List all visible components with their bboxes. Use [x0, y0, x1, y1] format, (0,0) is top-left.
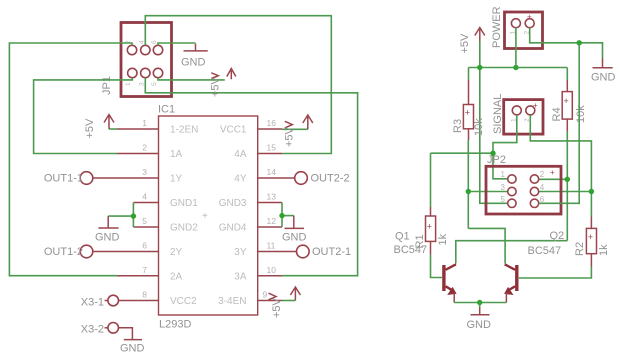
- svg-text:+: +: [465, 108, 470, 118]
- transistor Q2: [505, 264, 519, 302]
- wire JP2 pin6 to POWER GND net: [539, 43, 580, 204]
- svg-text:12: 12: [267, 216, 277, 226]
- resistor R3: [452, 68, 485, 141]
- IC pin 4 lead: [133, 202, 158, 204]
- wire POWER pin2 to GND: [530, 28, 603, 58]
- svg-text:GND1: GND1: [170, 198, 198, 209]
- node GND3/GND4 tie: [279, 203, 294, 228]
- svg-text:GND: GND: [181, 57, 206, 69]
- svg-text:3: 3: [501, 183, 506, 192]
- svg-text:JP2: JP2: [487, 154, 506, 166]
- wire +5V vertical rail to JP2 pin 5: [480, 41, 508, 203]
- ground GND at JP1: [181, 44, 208, 69]
- svg-text:10k: 10k: [575, 105, 587, 123]
- resistor R2: [574, 217, 610, 267]
- svg-text:+: +: [427, 222, 432, 232]
- connector JP1 pads: [127, 45, 162, 77]
- supply +5V at JP1: [210, 69, 236, 98]
- svg-text:5: 5: [142, 216, 147, 226]
- svg-text:OUT1-1: OUT1-1: [44, 173, 83, 185]
- svg-text:GND: GND: [95, 232, 120, 244]
- svg-text:OUT2-1: OUT2-1: [312, 246, 351, 258]
- svg-text:3: 3: [139, 82, 146, 86]
- svg-text:6: 6: [142, 241, 147, 251]
- svg-text:1: 1: [125, 82, 132, 86]
- IC pin numbers right: [263, 118, 277, 300]
- resistor R4: [551, 68, 587, 132]
- IC U1 L293D body: [159, 116, 258, 315]
- IC pin 9 lead: [258, 300, 282, 302]
- svg-text:4: 4: [142, 192, 147, 202]
- supply +5V at IC pin 1: [84, 115, 117, 139]
- svg-text:7: 7: [142, 265, 147, 275]
- svg-text:4Y: 4Y: [234, 174, 247, 185]
- svg-text:4A: 4A: [234, 149, 247, 160]
- svg-text:4: 4: [540, 183, 545, 192]
- svg-text:3A: 3A: [234, 272, 247, 283]
- svg-text:1k: 1k: [598, 244, 610, 256]
- svg-text:OUT2-2: OUT2-2: [311, 173, 350, 185]
- wire JP1 pin4 to IC1 pin 4A: [145, 16, 331, 154]
- svg-text:6: 6: [151, 40, 158, 44]
- svg-text:14: 14: [267, 167, 277, 177]
- svg-text:2A: 2A: [170, 272, 183, 283]
- svg-text:2Y: 2Y: [170, 247, 183, 258]
- connector POWER pads: [511, 19, 534, 28]
- svg-text:13: 13: [267, 192, 277, 202]
- wire JP1 pin3 to IC1 pin 3A: [145, 78, 357, 276]
- svg-text:BC547: BC547: [394, 244, 428, 256]
- wire SIGNAL pin1 to R1 and JP2 pin1: [431, 115, 517, 179]
- wire R4 to JP2 pin 2 and Q1 collector: [456, 131, 570, 264]
- terminal OUT2-1: [297, 245, 352, 258]
- svg-text:1: 1: [501, 170, 506, 179]
- svg-text:+5V: +5V: [84, 118, 96, 139]
- connector JP2 box: [486, 166, 561, 214]
- node POWER GND junction: [577, 40, 582, 45]
- svg-text:GND3: GND3: [219, 198, 247, 209]
- svg-text:SIGNAL: SIGNAL: [492, 94, 504, 134]
- svg-text:+: +: [588, 232, 593, 242]
- ground GND at transistors: [467, 308, 492, 332]
- svg-text:+5V: +5V: [271, 297, 283, 318]
- connector SIGNAL pin numbers: [511, 118, 532, 122]
- svg-text:2: 2: [540, 170, 545, 179]
- svg-text:+: +: [202, 211, 208, 222]
- svg-text:VCC2: VCC2: [170, 296, 197, 307]
- IC pin 13 lead: [258, 202, 282, 204]
- terminal OUT2-2: [295, 172, 350, 185]
- IC pin numbers left: [142, 118, 147, 300]
- svg-text:3Y: 3Y: [234, 247, 247, 258]
- svg-text:4: 4: [139, 40, 146, 44]
- IC pin 2 lead: [117, 153, 159, 155]
- wire emitters to GND: [454, 300, 506, 308]
- supply +5V at IC pin 9: [269, 287, 301, 318]
- terminal X3-2: [81, 323, 119, 336]
- ground GND at IC pins 4,5: [95, 216, 120, 243]
- IC pin 6 lead: [93, 251, 159, 253]
- IC pin 8 lead: [119, 300, 159, 302]
- connector JP2 pin numbers: [501, 170, 545, 204]
- ground GND top right: [591, 58, 616, 84]
- IC pin names left: [170, 125, 198, 308]
- connector JP1 pin numbers: [125, 40, 158, 86]
- transistor Q1: [442, 264, 456, 302]
- IC pin 1 lead: [117, 128, 159, 130]
- node GND1/GND2 tie: [108, 203, 136, 228]
- wire R1 to Q1 base: [431, 255, 443, 278]
- svg-text:+: +: [550, 168, 555, 177]
- svg-text:GND4: GND4: [219, 223, 247, 234]
- svg-text:5: 5: [501, 195, 506, 204]
- IC pin names right: [218, 125, 247, 308]
- svg-text:Q1: Q1: [395, 231, 410, 243]
- svg-text:OUT1-2: OUT1-2: [44, 246, 83, 258]
- IC pin 5 lead: [133, 226, 158, 228]
- svg-text:Q2: Q2: [550, 230, 565, 242]
- svg-text:+5V: +5V: [284, 126, 296, 147]
- IC pin 14 lead: [258, 177, 295, 179]
- svg-text:16: 16: [267, 118, 277, 128]
- terminal X3-1: [81, 295, 119, 308]
- wire X3-2 to GND: [119, 328, 133, 340]
- IC pin 12 lead: [258, 226, 282, 228]
- svg-text:10: 10: [267, 265, 277, 275]
- IC pin 7 lead: [117, 275, 159, 277]
- node POWER pin1 junction: [513, 65, 518, 70]
- svg-text:1A: 1A: [170, 149, 183, 160]
- svg-text:10k: 10k: [473, 118, 485, 136]
- wire R2 to Q2 base: [519, 267, 592, 279]
- svg-text:POWER: POWER: [491, 6, 503, 48]
- connector SIGNAL pads: [512, 106, 535, 115]
- terminal OUT1-1: [44, 172, 93, 185]
- svg-text:15: 15: [267, 143, 277, 153]
- svg-text:+5V: +5V: [459, 33, 471, 54]
- supply +5V at IC pin 16: [282, 115, 313, 147]
- IC pin 3 lead: [93, 177, 159, 179]
- svg-text:1Y: 1Y: [170, 174, 183, 185]
- ground GND at IC pins 13,12: [282, 216, 307, 244]
- wire +5V horizontal rail R3 to R4: [469, 67, 568, 69]
- svg-text:+: +: [564, 96, 569, 106]
- svg-text:BC547: BC547: [528, 245, 562, 257]
- connector POWER pin numbers: [510, 31, 531, 35]
- svg-text:2: 2: [142, 143, 147, 153]
- transistor Q2 labels: [528, 230, 565, 257]
- svg-text:3: 3: [142, 167, 147, 177]
- svg-text:GND: GND: [591, 72, 616, 84]
- svg-text:8: 8: [142, 290, 147, 300]
- svg-text:GND: GND: [467, 319, 492, 331]
- connector JP1 box: [121, 23, 172, 97]
- svg-text:5: 5: [151, 82, 158, 86]
- wire JP1 pin6 to GND: [158, 43, 196, 45]
- wire JP1 pin2 to +5V: [158, 78, 225, 80]
- svg-text:L293D: L293D: [159, 319, 191, 331]
- svg-text:JP1: JP1: [101, 76, 113, 95]
- svg-text:X3-1: X3-1: [81, 297, 104, 309]
- wire JP1 pin5 to IC1 pin 2A: [9, 43, 132, 276]
- IC pin 15 lead: [258, 153, 282, 155]
- svg-text:IC1: IC1: [158, 104, 175, 116]
- svg-text:1: 1: [142, 118, 147, 128]
- IC pin 11 lead: [258, 251, 297, 253]
- IC pin 16 lead: [258, 128, 282, 130]
- svg-text:R4: R4: [551, 107, 563, 121]
- wire SIGNAL pin2 to R2 and JP2 pin4: [530, 115, 594, 217]
- svg-text:X3-2: X3-2: [81, 324, 104, 336]
- svg-text:1-2EN: 1-2EN: [170, 125, 198, 136]
- node +5V rail junction: [477, 65, 482, 70]
- IC pin 10 lead: [258, 275, 282, 277]
- svg-text:9: 9: [263, 290, 268, 300]
- transistor Q1 labels: [394, 231, 428, 257]
- svg-text:GND: GND: [282, 232, 307, 244]
- svg-text:VCC1: VCC1: [220, 125, 247, 136]
- connector SIGNAL box: [504, 100, 543, 135]
- wire POWER pin1 to +5V rail: [515, 28, 517, 68]
- ground GND at X3-2: [120, 340, 145, 355]
- svg-text:11: 11: [267, 241, 276, 251]
- wire JP1 pin1 to IC1 pin 1A: [34, 78, 133, 154]
- terminal OUT1-2: [44, 245, 93, 258]
- svg-text:GND: GND: [120, 343, 145, 355]
- svg-text:+5V: +5V: [210, 76, 222, 97]
- svg-text:R2: R2: [574, 242, 586, 256]
- connector POWER box: [505, 12, 543, 49]
- resistor R1: [414, 153, 449, 255]
- supply +5V rail arrow top right: [459, 28, 485, 54]
- svg-text:GND2: GND2: [170, 223, 198, 234]
- wire R3 to JP2 pin 3 and Q2 collector: [466, 140, 508, 264]
- svg-text:1k: 1k: [437, 233, 449, 245]
- svg-text:3-4EN: 3-4EN: [218, 296, 246, 307]
- svg-text:R3: R3: [452, 119, 464, 133]
- connector JP2 pads: [508, 175, 539, 208]
